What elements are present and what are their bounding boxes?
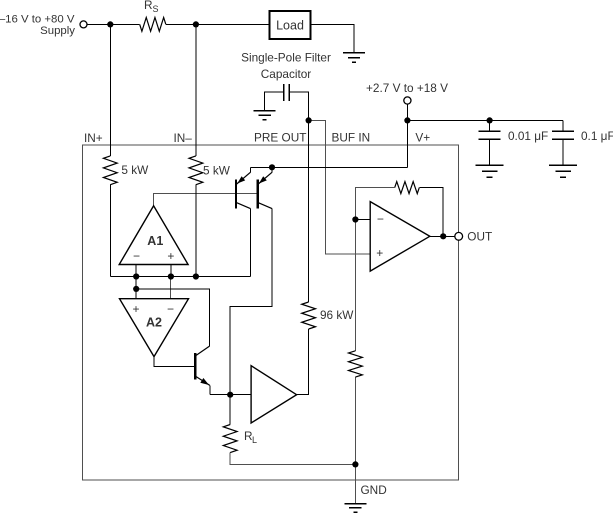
svg-text:OUT: OUT [467,230,492,244]
svg-text:−: − [167,302,174,316]
svg-text:5 kW: 5 kW [203,164,231,178]
svg-text:5 kW: 5 kW [121,163,149,177]
svg-text:GND: GND [361,483,387,497]
svg-text:0.1 μF: 0.1 μF [581,129,613,143]
svg-text:L: L [252,435,257,445]
svg-text:IN–: IN– [174,131,193,145]
svg-text:Supply: Supply [40,25,75,37]
svg-text:+2.7 V to +18 V: +2.7 V to +18 V [366,81,448,95]
svg-text:–16 V to +80 V: –16 V to +80 V [0,13,75,25]
svg-text:PRE OUT: PRE OUT [254,131,306,145]
svg-text:−: − [377,212,384,226]
svg-text:Single-Pole Filter: Single-Pole Filter [241,51,331,65]
svg-text:V+: V+ [415,131,430,145]
svg-text:−: − [133,249,140,263]
svg-text:Capacitor: Capacitor [261,67,312,81]
svg-text:+: + [132,302,139,316]
svg-text:A1: A1 [147,234,163,248]
svg-text:96 kW: 96 kW [320,308,354,322]
svg-text:IN+: IN+ [84,131,103,145]
svg-text:BUF IN: BUF IN [332,131,371,145]
svg-text:0.01 μF: 0.01 μF [508,129,548,143]
svg-text:+: + [167,249,174,263]
svg-text:Load: Load [276,19,304,33]
svg-text:S: S [153,4,159,14]
svg-text:R: R [144,0,153,12]
svg-text:A2: A2 [146,316,162,330]
svg-text:+: + [376,246,383,260]
